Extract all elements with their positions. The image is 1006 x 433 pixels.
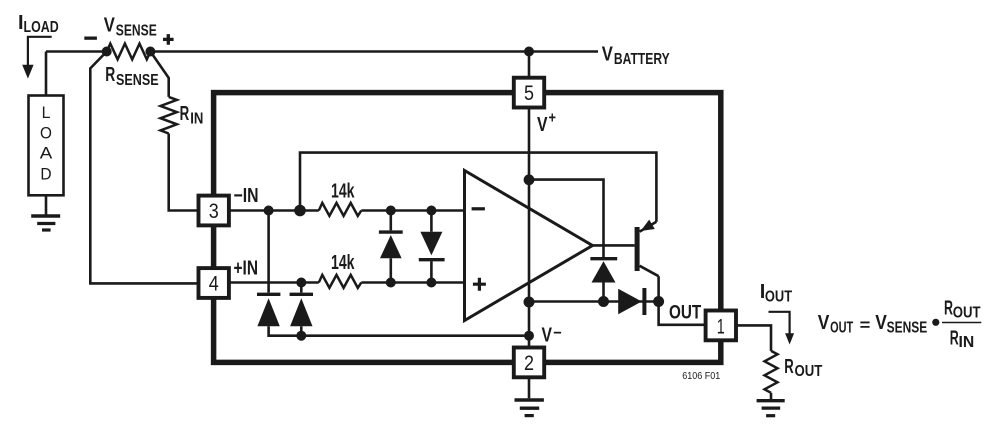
svg-text:OUT: OUT [953, 305, 981, 322]
svg-text:+IN: +IN [234, 257, 259, 279]
op-amp U1 [465, 171, 593, 321]
resistor RIN [161, 97, 177, 134]
wire Q1 collector drop [657, 276, 660, 301]
LOAD box [29, 96, 64, 196]
svg-text:L: L [42, 104, 51, 122]
ground under ROUT [757, 399, 785, 402]
wire top rail to VBATTERY [150, 50, 598, 53]
minus sign at RSENSE [84, 37, 97, 40]
svg-text:14k: 14k [331, 252, 355, 274]
wire D4 top lead [300, 283, 303, 293]
node -IN d [426, 206, 436, 216]
svg-text:O: O [40, 125, 52, 143]
node Vbattery junction [524, 47, 534, 57]
svg-text:V: V [818, 312, 830, 334]
wire op-amp output to Q1 base [593, 244, 635, 247]
wire D5 lower lead [602, 283, 605, 302]
node -IN b [294, 205, 306, 217]
transistor Q1 collector [640, 266, 659, 276]
wire ROUT to ground [770, 393, 773, 399]
svg-text:3: 3 [209, 200, 219, 223]
svg-text:OUT: OUT [830, 319, 853, 336]
svg-text:5: 5 [524, 82, 534, 105]
svg-text:1: 1 [717, 315, 725, 338]
wire OUT node to pin 1 [659, 302, 707, 325]
arrow IOUT [769, 312, 790, 334]
node V- junction [524, 331, 534, 341]
pin 3 box [199, 196, 229, 226]
op-amp minus input mark [472, 207, 485, 210]
svg-text:2: 2 [524, 352, 534, 375]
diode D1 [379, 230, 403, 233]
wire bottom rail to OUT node [529, 300, 659, 303]
svg-text:V: V [104, 15, 116, 37]
pin 4 box [199, 268, 229, 298]
node +IN b [386, 278, 396, 288]
node OUT [653, 296, 664, 307]
svg-text:4: 4 [209, 273, 219, 296]
svg-text:V: V [542, 324, 553, 346]
svg-text:+: + [549, 110, 557, 127]
wire -IN line [228, 209, 465, 212]
plus sign at RSENSE [163, 34, 174, 45]
svg-text:−: − [553, 325, 562, 342]
node bottom rail left [524, 297, 535, 308]
svg-text:LOAD: LOAD [24, 19, 59, 36]
ground under LOAD [31, 214, 60, 217]
node -IN a [264, 206, 274, 216]
resistor R1 14k upper [319, 203, 362, 216]
svg-text:IN: IN [190, 111, 203, 128]
svg-text:OUT: OUT [795, 363, 823, 380]
svg-text:V: V [537, 114, 548, 136]
node Vsense minus [102, 47, 112, 57]
node +IN c [426, 278, 436, 288]
resistor ROUT [765, 351, 778, 393]
diode D6 [618, 289, 642, 314]
wire +IN line [228, 281, 465, 284]
wire LOAD ground stem [45, 195, 48, 215]
svg-text:6106 F01: 6106 F01 [682, 370, 720, 382]
svg-text:SENSE: SENSE [116, 22, 157, 39]
IC boundary box [214, 93, 721, 363]
node -IN c [386, 206, 396, 216]
resistor R2 14k lower [319, 275, 362, 288]
wire V- line [269, 326, 529, 335]
wire D3 top lead [267, 211, 270, 293]
pin 2 box [514, 348, 544, 378]
wire top rail left [46, 50, 107, 53]
svg-text:V: V [602, 44, 614, 66]
svg-text:A: A [40, 145, 53, 163]
svg-text:=: = [860, 317, 871, 335]
svg-text:BATTERY: BATTERY [614, 51, 670, 68]
node dots [102, 47, 664, 341]
wire pin 1 to ROUT [735, 325, 771, 351]
wire VBATTERY drop to pin 5 [528, 52, 531, 79]
diode D3 [257, 293, 280, 296]
wire pin 2 ground stem [528, 376, 531, 398]
node +IN a [296, 278, 306, 288]
diode D4 [290, 293, 313, 296]
svg-text:−IN: −IN [234, 185, 259, 207]
op-amp plus input mark [473, 278, 486, 291]
arrow ILOAD [28, 37, 52, 66]
node Vsense plus [145, 47, 155, 57]
svg-text:SENSE: SENSE [116, 72, 159, 89]
svg-text:OUT: OUT [765, 288, 792, 305]
ground under pin 2 [515, 398, 544, 402]
wire Vsense plus to RIN [150, 52, 168, 97]
node V+ internal [524, 174, 535, 185]
pin 1 box [706, 311, 736, 341]
wire V+ branch to D5 [529, 180, 604, 258]
svg-text:D: D [40, 166, 51, 184]
wire RIN to pin 3 [169, 134, 200, 211]
diode D5 [590, 257, 617, 260]
pin 5 box [514, 78, 544, 108]
svg-text:R: R [784, 356, 794, 378]
node D4 anode [296, 331, 306, 341]
wire D2 leads [430, 211, 433, 283]
wire D1 leads [389, 211, 392, 283]
resistor RSENSE [107, 44, 151, 60]
wire LOAD riser [45, 52, 48, 96]
equation fraction bar [942, 322, 981, 324]
wire D4 lower lead [300, 326, 303, 335]
transistor Q1 emitter arrow [641, 220, 655, 231]
svg-text:14k: 14k [331, 180, 355, 202]
transistor Q1 base bar [635, 227, 640, 271]
svg-text:R: R [180, 103, 190, 125]
wire Vsense minus to +IN pin 4 [90, 52, 199, 284]
diode D2 [420, 232, 442, 256]
wire feedback from node to Q1 emitter [300, 153, 656, 222]
node D5 anode [598, 296, 609, 307]
svg-text:OUT: OUT [669, 302, 702, 323]
svg-text:IN: IN [959, 334, 975, 351]
wire V+ power line through amp to pin 2 [528, 107, 531, 349]
transistor Q1 emitter [640, 222, 657, 232]
svg-text:SENSE: SENSE [887, 319, 928, 336]
svg-text:R: R [105, 64, 115, 86]
